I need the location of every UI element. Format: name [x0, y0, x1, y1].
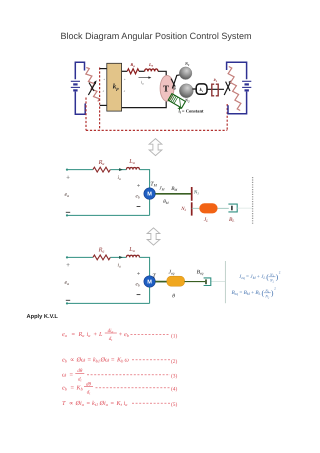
svg-text:Kt: Kt: [116, 400, 123, 407]
equation 4 (eb = Kb dtheta/dt): [62, 381, 177, 395]
svg-text:Beq = BM + BL: Beq = BM + BL: [232, 290, 261, 296]
amplifier U1 kp: [103, 63, 126, 111]
svg-text:e: e: [124, 89, 126, 93]
svg-text:Ra: Ra: [130, 62, 135, 68]
damper Beq: [204, 278, 211, 286]
equation Jeq (blue): [239, 271, 281, 284]
svg-text:=: =: [72, 331, 76, 338]
svg-text:ia: ia: [141, 80, 144, 86]
svg-text:BM: BM: [171, 186, 177, 192]
svg-text:(1): (1): [171, 334, 177, 340]
node ea+ terminal: [66, 256, 68, 258]
potentiometer P2 (right, feedback): [228, 67, 241, 111]
svg-text:Ra: Ra: [98, 247, 105, 254]
resistor Ra (bottom schematic): [93, 255, 110, 260]
current arrow ia (bottom schematic): [119, 256, 123, 259]
damper BL: [228, 204, 252, 212]
label - (ea): [66, 299, 70, 301]
gear N2 (lower): [179, 84, 193, 98]
wire (top rail, armature loop): [67, 170, 150, 216]
svg-text:eb: eb: [62, 384, 68, 391]
svg-text:M: M: [147, 280, 152, 286]
label - (eb): [137, 206, 141, 208]
svg-text:La: La: [128, 158, 134, 165]
svg-text:ω: ω: [62, 371, 67, 378]
equation 5 (torque): [62, 400, 177, 408]
resistor Ra (middle schematic): [93, 167, 110, 172]
svg-text:=: =: [87, 400, 91, 407]
svg-text:(2): (2): [171, 359, 177, 365]
svg-text:θ: θ: [174, 86, 176, 91]
gearbox ks: [196, 84, 207, 94]
svg-text:if = Constant: if = Constant: [179, 108, 205, 114]
svg-text:M: M: [147, 192, 152, 198]
svg-text:La: La: [148, 62, 154, 68]
wiper/shaft from motor to gear: [171, 75, 180, 89]
svg-text:BL: BL: [229, 217, 234, 223]
resistor Ra (top schematic): [127, 69, 139, 74]
svg-text:=: =: [111, 356, 115, 363]
svg-text:Øia: Øia: [75, 400, 84, 407]
up-down arrow 1: [149, 139, 162, 156]
svg-text:Jeq = JM + JL: Jeq = JM + JL: [239, 274, 265, 280]
svg-text:eb: eb: [62, 356, 68, 363]
equation Beq (blue): [232, 287, 277, 300]
wire (bottom rail amplifier to motor): [122, 101, 167, 108]
gear N1 (upper): [179, 67, 192, 80]
svg-text:∝: ∝: [69, 400, 73, 407]
svg-text:(: (: [262, 289, 265, 298]
svg-text:T: T: [163, 84, 169, 94]
svg-text:N2: N2: [180, 206, 186, 212]
wire (amplifier output to Ra): [122, 70, 128, 72]
svg-text:2: 2: [274, 287, 276, 291]
svg-text:eb: eb: [136, 282, 140, 288]
inertia JL (orange cylinder): [199, 203, 217, 213]
equation 2 (back emf): [62, 356, 177, 365]
svg-text:N2: N2: [269, 279, 275, 284]
inductor La (top schematic): [145, 69, 158, 71]
svg-text:θ: θ: [172, 293, 175, 299]
svg-text:N2: N2: [264, 295, 270, 300]
svg-text:Ra: Ra: [98, 159, 105, 166]
svg-text:Jeq: Jeq: [169, 269, 175, 275]
svg-text:∝: ∝: [70, 356, 74, 363]
motor shaft (bottom schematic): [155, 281, 167, 283]
label - (ea): [66, 211, 70, 213]
node ea- terminal: [66, 302, 68, 304]
svg-text:Apply K.V.L: Apply K.V.L: [27, 313, 59, 320]
svg-text:+: +: [119, 331, 123, 338]
wiper arrow of P2 (right): [224, 80, 231, 95]
svg-text:La: La: [128, 246, 134, 253]
svg-text:TM: TM: [150, 181, 157, 187]
svg-text:JM: JM: [159, 186, 164, 192]
svg-text:N1: N1: [184, 61, 190, 67]
svg-text:=: =: [111, 400, 115, 407]
svg-text:ea: ea: [65, 280, 70, 286]
motor shaft (middle schematic): [155, 193, 191, 195]
svg-text:N1: N1: [193, 189, 199, 195]
dashed feedback wire (right vertical): [226, 104, 228, 130]
wire (armature loop): [67, 257, 150, 303]
svg-text:Øω: Øω: [76, 356, 86, 363]
dashed feedback wire (bottom rail): [86, 129, 227, 131]
battery B2 (right): [227, 62, 252, 113]
wall (fixed reference): [252, 177, 254, 224]
svg-text:=: =: [70, 371, 74, 378]
coupling RL (red brackets): [212, 84, 218, 96]
svg-text:+: +: [66, 262, 70, 269]
svg-text:Block Diagram Angular Position: Block Diagram Angular Position Control S…: [60, 31, 251, 41]
svg-text:θM: θM: [163, 199, 169, 205]
inductor La (bottom schematic): [126, 255, 139, 257]
shaft from gear N2 to ks: [192, 88, 196, 90]
svg-text:ω: ω: [125, 356, 130, 363]
svg-text:L: L: [98, 331, 103, 338]
dashed feedback wire (left vertical from P1): [85, 98, 87, 131]
svg-text:+: +: [66, 174, 70, 181]
inertia Jeq (orange cylinder): [167, 276, 185, 286]
svg-text:eb: eb: [124, 331, 130, 338]
svg-text:Øω: Øω: [100, 356, 110, 363]
node ea- terminal: [66, 214, 68, 216]
separator line: [224, 261, 226, 303]
svg-text:ea: ea: [65, 192, 70, 198]
svg-text:Ra: Ra: [78, 331, 85, 338]
svg-text:+: +: [124, 78, 126, 82]
motor M (middle schematic): [144, 188, 155, 199]
svg-text:Kb: Kb: [116, 356, 124, 363]
gear N2 (middle schematic): [191, 202, 193, 215]
potentiometer P1 (left, input): [86, 68, 100, 102]
load shaft (N2 to JL): [192, 207, 200, 209]
wire (amplifier input top): [100, 68, 107, 70]
svg-text:=: =: [88, 356, 92, 363]
svg-text:+: +: [137, 270, 141, 277]
svg-text:kb1: kb1: [93, 356, 100, 363]
svg-text:(3): (3): [171, 374, 177, 380]
svg-text:(: (: [266, 273, 269, 282]
svg-text:T: T: [62, 400, 66, 407]
shaft (JL to BL): [218, 207, 229, 209]
current arrow ia (top schematic): [139, 77, 150, 79]
current arrow ia (middle schematic): [119, 168, 123, 171]
svg-text:RL: RL: [214, 78, 218, 83]
equation 1 (KVL): [62, 328, 177, 342]
svg-text:Øia: Øia: [99, 400, 108, 407]
svg-text:=: =: [71, 384, 75, 391]
svg-text:+: +: [94, 331, 98, 338]
label - (eb): [137, 294, 141, 296]
svg-text:kt1: kt1: [92, 400, 98, 407]
svg-text:+: +: [137, 182, 141, 189]
svg-text:T: T: [152, 273, 156, 279]
svg-text:eb: eb: [136, 194, 140, 200]
svg-text:dt: dt: [87, 389, 92, 395]
dashed feedback wire (left vertical from wiper to rail): [99, 68, 101, 131]
battery B1 (left, top schematic): [71, 62, 85, 114]
gear N1 (middle schematic): [191, 187, 193, 201]
motor T (pink ellipse): [160, 75, 174, 101]
svg-text:(5): (5): [171, 402, 177, 408]
svg-text:Beq: Beq: [197, 269, 204, 275]
svg-text:e: e: [103, 89, 105, 93]
up-down arrow 2: [147, 228, 160, 245]
svg-text:JL: JL: [204, 217, 208, 223]
svg-text:2: 2: [279, 271, 281, 275]
svg-text:(4): (4): [171, 387, 177, 393]
svg-text:ia: ia: [124, 400, 128, 407]
wire (amplifier input bottom): [100, 104, 107, 106]
wire (ks to RL): [207, 88, 224, 90]
field winding (green, if constant): [168, 94, 185, 111]
svg-text:ea: ea: [62, 331, 67, 338]
svg-text:+: +: [103, 78, 105, 82]
svg-text:dt: dt: [109, 336, 114, 342]
wiper arrow of P1: [88, 80, 96, 95]
svg-text:Kb: Kb: [76, 384, 84, 391]
svg-text:ia: ia: [118, 263, 122, 269]
svg-text:dt: dt: [78, 376, 83, 382]
shaft (Jeq to Beq): [185, 281, 206, 283]
node ea+ terminal: [66, 169, 68, 171]
svg-text:ia: ia: [87, 331, 91, 338]
svg-text:ia: ia: [118, 175, 122, 181]
wire (La to motor): [158, 71, 166, 76]
motor M (bottom schematic): [144, 276, 155, 287]
equation 3 (omega): [62, 368, 177, 382]
inductor La (middle schematic): [126, 167, 139, 169]
wire (Ra to La): [139, 70, 145, 72]
